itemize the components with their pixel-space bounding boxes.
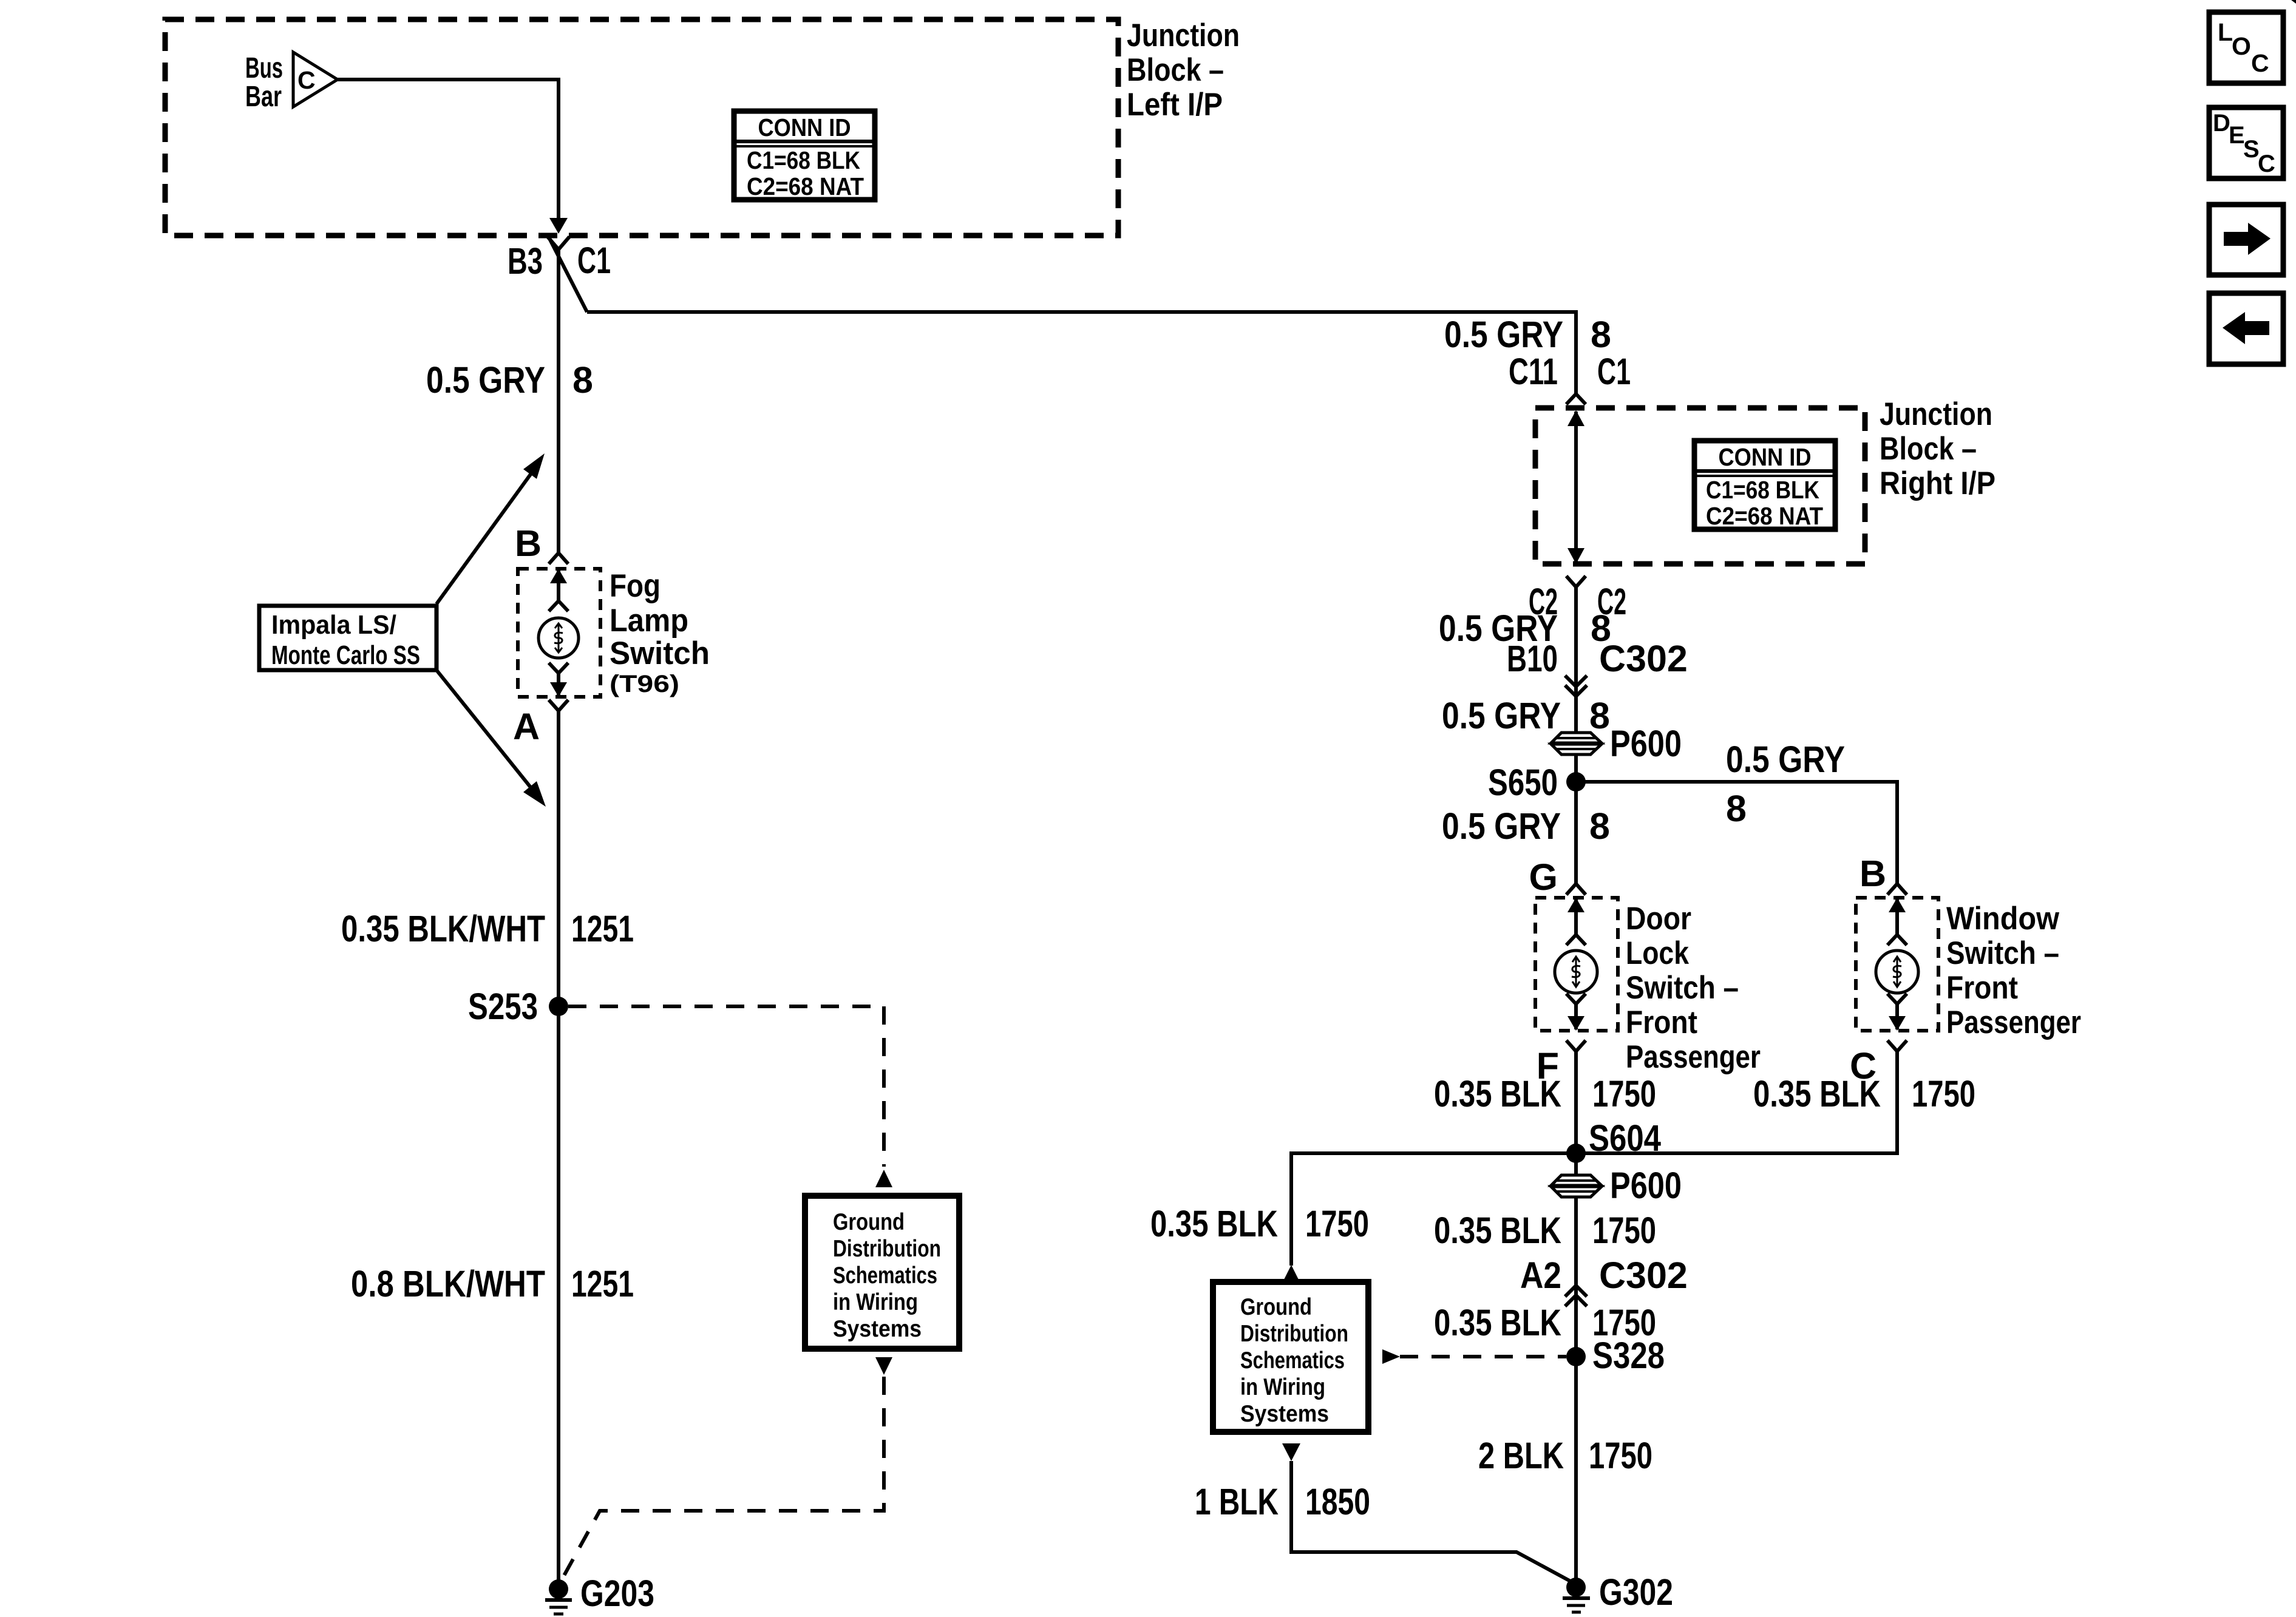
svg-text:0.35 BLK: 0.35 BLK	[1434, 1210, 1561, 1251]
svg-text:1750: 1750	[1912, 1073, 1975, 1114]
svg-text:S253: S253	[468, 986, 538, 1027]
bus bar terminal C	[293, 52, 338, 107]
reference arrow up to ground box	[875, 1170, 892, 1187]
connector chevron above fog lamp switch	[549, 553, 568, 564]
svg-text:0.35 BLK: 0.35 BLK	[1434, 1073, 1561, 1114]
callout arrow up (Impala)	[436, 453, 545, 604]
wire from bus bar into junction block	[338, 80, 559, 219]
svg-text:C1: C1	[1597, 351, 1631, 392]
chevron below fog lamp switch	[549, 700, 568, 711]
splice S650	[1488, 762, 1586, 803]
value label 1 BLK 1850	[1195, 1481, 1370, 1522]
callout arrow down (Impala)	[436, 670, 546, 807]
fog lamp switch pin B arrow	[557, 570, 560, 601]
splice S328	[1566, 1335, 1665, 1376]
svg-text:0.8 BLK/WHT: 0.8 BLK/WHT	[351, 1263, 545, 1304]
svg-text:Lamp: Lamp	[610, 603, 688, 639]
svg-text:0.5 GRY: 0.5 GRY	[1442, 805, 1561, 847]
svg-text:0.35 BLK: 0.35 BLK	[1150, 1203, 1278, 1244]
svg-text:1750: 1750	[1592, 1210, 1656, 1251]
chevron below door lock switch	[1566, 1040, 1586, 1051]
splice S604	[1566, 1117, 1661, 1163]
label Bus Bar	[245, 52, 283, 113]
label Window Switch - Front Passenger	[1946, 901, 2081, 1040]
svg-text:B10: B10	[1507, 638, 1558, 679]
svg-text:P600: P600	[1610, 1165, 1682, 1206]
value label 0.35 BLK 1750 (branch)	[1150, 1203, 1369, 1244]
conn id table (left)	[734, 111, 875, 200]
svg-text:Schematics: Schematics	[1240, 1347, 1345, 1374]
svg-text:Systems: Systems	[1240, 1401, 1329, 1427]
svg-text:C: C	[2251, 49, 2269, 77]
value label 0.8 BLK/WHT 1251	[351, 1263, 634, 1304]
svg-text:Distribution: Distribution	[1240, 1321, 1348, 1347]
svg-text:1850: 1850	[1305, 1481, 1370, 1522]
pin labels C11 / C1	[1509, 351, 1631, 392]
chevron above door lock switch	[1566, 884, 1586, 895]
pin labels C2 / C2	[1529, 581, 1626, 622]
svg-text:Bar: Bar	[245, 81, 282, 113]
value label 0.35 BLK 1750 (window)	[1753, 1073, 1975, 1114]
svg-text:1750: 1750	[1589, 1435, 1652, 1476]
svg-text:1251: 1251	[571, 908, 634, 949]
svg-text:B: B	[1860, 853, 1886, 894]
svg-text:CONN ID: CONN ID	[758, 114, 851, 141]
svg-text:0.35 BLK/WHT: 0.35 BLK/WHT	[341, 908, 545, 949]
svg-text:Front: Front	[1626, 1005, 1697, 1040]
svg-text:E: E	[2229, 122, 2245, 149]
LOC nav box	[2209, 12, 2283, 83]
value label 0.35 BLK/WHT 1251	[341, 908, 634, 949]
window switch - front passenger (dashed box)	[1856, 898, 1938, 1031]
svg-text:8: 8	[572, 359, 593, 401]
connector C302 double chevron (up)	[1565, 1286, 1587, 1306]
label Fog Lamp Switch (T96)	[610, 568, 710, 697]
svg-text:B3: B3	[508, 240, 543, 282]
value label 0.5 GRY 8 (branch)	[1726, 739, 1845, 829]
svg-text:Bus: Bus	[245, 52, 283, 84]
svg-text:C: C	[2258, 151, 2275, 177]
svg-text:C1=68 BLK: C1=68 BLK	[1706, 476, 1819, 504]
junction block - left I/P (dashed box)	[165, 19, 1118, 236]
fog lamp switch pin A arrow	[549, 663, 568, 697]
svg-text:G: G	[1529, 856, 1558, 898]
junction block - right I/P (dashed box)	[1535, 408, 1865, 564]
svg-text:Block –: Block –	[1880, 431, 1977, 467]
fog lamp switch (dashed box)	[518, 569, 600, 697]
svg-text:Junction: Junction	[1880, 396, 1992, 432]
svg-text:Switch –: Switch –	[1626, 970, 1739, 1006]
ground G203	[545, 1573, 654, 1614]
grommet P600 (upper)	[1551, 723, 1682, 764]
svg-text:Switch: Switch	[610, 636, 710, 671]
value label 0.5 GRY 8	[1442, 805, 1610, 847]
ground distribution reference box (right)	[1213, 1282, 1368, 1432]
door lock switch internals	[1555, 898, 1597, 1031]
svg-text:C1=68 BLK: C1=68 BLK	[747, 146, 860, 174]
door lock switch - front passenger (dashed box)	[1535, 898, 1618, 1031]
value label 0.5 GRY 8	[426, 359, 593, 401]
wire ground box to G302	[1291, 1461, 1576, 1584]
svg-text:S: S	[2243, 136, 2260, 163]
svg-text:1750: 1750	[1305, 1203, 1369, 1244]
wire window switch to S604	[1576, 1051, 1897, 1153]
svg-text:in Wiring: in Wiring	[833, 1289, 918, 1315]
value label 0.5 GRY 8	[1442, 695, 1610, 736]
arrowhead into connector C1	[549, 218, 568, 234]
svg-text:Passenger: Passenger	[1946, 1005, 2081, 1040]
svg-text:O: O	[2232, 32, 2251, 60]
svg-text:S604: S604	[1589, 1117, 1661, 1159]
svg-text:2 BLK: 2 BLK	[1478, 1435, 1564, 1476]
page corner tick	[2291, 0, 2296, 4]
svg-text:Junction: Junction	[1127, 18, 1240, 53]
svg-text:8: 8	[1591, 314, 1611, 355]
svg-text:in Wiring: in Wiring	[1240, 1374, 1325, 1400]
svg-text:C2=68 NAT: C2=68 NAT	[1706, 502, 1823, 530]
connector chevron above right junction block	[1566, 394, 1586, 404]
ground G302	[1563, 1571, 1673, 1613]
svg-text:Switch –: Switch –	[1946, 935, 2059, 971]
svg-text:Lock: Lock	[1626, 935, 1689, 971]
svg-text:Impala LS/: Impala LS/	[271, 610, 396, 640]
value label 0.35 BLK 1750 (door)	[1434, 1073, 1656, 1114]
svg-text:Left I/P: Left I/P	[1127, 87, 1223, 123]
grommet P600 (lower)	[1551, 1165, 1682, 1206]
wire branch S650 to window switch	[1576, 782, 1897, 884]
reference arrow up to ground box (right)	[1283, 1265, 1300, 1282]
svg-text:A: A	[513, 706, 540, 747]
svg-text:Systems: Systems	[833, 1316, 922, 1342]
svg-text:Distribution: Distribution	[833, 1236, 941, 1262]
wire S604 to ground reference (left branch)	[1291, 1153, 1576, 1266]
svg-text:C: C	[297, 66, 316, 94]
connector C302 double chevron	[1565, 676, 1587, 696]
splice S253	[468, 986, 568, 1027]
label Door Lock Switch - Front Passenger	[1626, 901, 1761, 1075]
chevron below window switch	[1887, 1040, 1907, 1051]
svg-text:(T96): (T96)	[610, 671, 679, 697]
label Junction Block - Right I/P	[1880, 396, 1995, 501]
svg-text:Block –: Block –	[1127, 52, 1224, 88]
svg-text:C11: C11	[1509, 351, 1558, 392]
svg-text:Passenger: Passenger	[1626, 1039, 1761, 1075]
svg-text:Ground: Ground	[833, 1209, 905, 1235]
svg-text:C1: C1	[577, 240, 611, 281]
wire from C1 to right junction block	[587, 312, 1576, 395]
svg-text:0.5 GRY: 0.5 GRY	[426, 359, 545, 401]
svg-text:Schematics: Schematics	[833, 1263, 937, 1289]
dashed reference wire to G203	[559, 1377, 884, 1585]
svg-text:B: B	[515, 523, 542, 564]
value label 0.35 BLK 1750	[1434, 1302, 1656, 1343]
svg-text:S328: S328	[1592, 1335, 1665, 1376]
svg-text:Window: Window	[1946, 901, 2060, 937]
pin labels B10 / C302	[1507, 638, 1688, 679]
chevron above window switch	[1887, 884, 1907, 895]
DESC nav box	[2209, 107, 2283, 178]
svg-text:Fog: Fog	[610, 568, 661, 604]
svg-text:1750: 1750	[1592, 1073, 1656, 1114]
svg-text:0.35 BLK: 0.35 BLK	[1753, 1073, 1881, 1114]
value label 0.5 GRY 8 (right feed)	[1444, 314, 1611, 355]
svg-text:0.35 BLK: 0.35 BLK	[1434, 1302, 1561, 1343]
svg-text:0.5 GRY: 0.5 GRY	[1442, 695, 1561, 736]
svg-text:Ground: Ground	[1240, 1294, 1312, 1320]
svg-text:C302: C302	[1599, 638, 1688, 679]
label Junction Block - Left I/P	[1127, 18, 1240, 123]
svg-text:C2=68 NAT: C2=68 NAT	[747, 172, 864, 200]
svg-text:0.5 GRY: 0.5 GRY	[1726, 739, 1845, 780]
svg-text:8: 8	[1589, 805, 1610, 847]
window switch internals	[1876, 898, 1918, 1031]
svg-text:CONN ID: CONN ID	[1719, 443, 1812, 471]
svg-text:1251: 1251	[571, 1263, 634, 1304]
next arrow nav box	[2209, 205, 2283, 275]
svg-text:Door: Door	[1626, 901, 1691, 937]
dashed reference arrow into S328	[1382, 1349, 1566, 1364]
svg-text:Monte Carlo SS: Monte Carlo SS	[271, 640, 420, 670]
conn id table (right)	[1694, 441, 1835, 530]
svg-text:S650: S650	[1488, 762, 1558, 803]
svg-text:1 BLK: 1 BLK	[1195, 1481, 1279, 1522]
wire left main vertical to G203	[557, 711, 560, 1582]
svg-text:P600: P600	[1610, 723, 1682, 764]
svg-text:C302: C302	[1599, 1255, 1688, 1296]
svg-text:Front: Front	[1946, 970, 2018, 1006]
callout box Impala LS / Monte Carlo SS	[259, 606, 436, 670]
dashed reference wire from S253	[568, 1006, 884, 1167]
pin labels A2 / C302	[1520, 1255, 1688, 1296]
reference arrow down from ground box	[875, 1357, 892, 1375]
svg-text:G203: G203	[580, 1573, 654, 1614]
wire right main vertical to G302	[1574, 1051, 1578, 1582]
reference arrow down from ground box (right)	[1282, 1443, 1300, 1461]
value label 0.35 BLK 1750	[1434, 1210, 1656, 1251]
wire right main vertical	[1574, 587, 1578, 884]
chevron below right junction block	[1566, 576, 1586, 587]
svg-text:L: L	[2218, 18, 2233, 46]
value label 2 BLK 1750	[1478, 1435, 1652, 1476]
back arrow nav box	[2209, 293, 2283, 364]
svg-text:G302: G302	[1599, 1571, 1673, 1613]
svg-text:A2: A2	[1520, 1255, 1561, 1296]
svg-text:D: D	[2213, 110, 2230, 137]
wire left main vertical (0.5 GRY)	[557, 248, 560, 554]
svg-text:0.5 GRY: 0.5 GRY	[1444, 314, 1563, 355]
value label 0.5 GRY 8	[1439, 608, 1611, 649]
svg-text:8: 8	[1589, 695, 1610, 736]
fog lamp switch illuminated contact	[538, 618, 579, 658]
ground distribution reference box (left)	[805, 1196, 959, 1349]
wire through right junction block	[1567, 410, 1584, 564]
svg-text:Right I/P: Right I/P	[1880, 466, 1995, 501]
connector B3/C1 X symbol	[548, 235, 587, 312]
svg-text:8: 8	[1726, 788, 1747, 829]
